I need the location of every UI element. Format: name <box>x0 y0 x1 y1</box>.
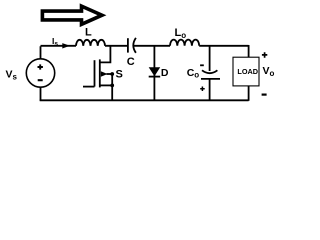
Co minus sign <box>200 64 204 66</box>
wire LOAD bottom to rail <box>248 86 250 101</box>
wire bottom rail <box>40 99 249 101</box>
svg-text:Vs: Vs <box>6 69 18 82</box>
transistor S source lead <box>100 84 112 86</box>
svg-text:Is: Is <box>52 36 58 47</box>
diode D triangle <box>149 67 161 76</box>
voltage source Vs circle <box>26 59 54 87</box>
output minus sign <box>262 93 267 95</box>
wire source connector to bottom rail <box>111 74 113 101</box>
junction dot source-bottom <box>110 84 114 88</box>
capacitor Co straight plate <box>201 78 220 80</box>
wire source bottom to rail <box>40 87 42 101</box>
svg-text:Vo: Vo <box>263 65 275 78</box>
LOAD box <box>233 57 259 86</box>
wire rail L to capacitor C <box>105 45 128 47</box>
svg-text:Lo: Lo <box>175 27 187 40</box>
capacitor C right curved plate <box>133 38 136 53</box>
capacitor Co bottom wire <box>209 79 211 101</box>
capacitor Co top wire <box>209 46 211 71</box>
Vs minus sign <box>38 79 43 81</box>
capacitor Co curved plate <box>202 70 217 73</box>
output plus sign <box>262 52 267 58</box>
current arrow Is head <box>62 43 70 48</box>
capacitor C left plate <box>127 38 129 52</box>
wire rail C to inductor Lo <box>134 45 170 47</box>
transistor S drain lead to top rail <box>100 46 111 63</box>
svg-text:S: S <box>116 69 123 81</box>
diode D branch wire <box>153 46 155 101</box>
transistor S channel bar <box>99 59 101 87</box>
wire rail Lo to right corner <box>199 45 248 57</box>
wire top-left rail from source to inductor L <box>41 46 77 59</box>
svg-text:C: C <box>127 56 135 68</box>
svg-text:LOAD: LOAD <box>237 67 258 76</box>
Co plus sign <box>200 87 205 92</box>
transistor S gate lead <box>83 86 95 88</box>
diode D cathode bar <box>149 76 161 78</box>
svg-text:L: L <box>85 27 92 39</box>
inductor L coil <box>76 40 105 46</box>
svg-text:Co: Co <box>187 67 200 80</box>
inductor Lo coil <box>170 40 199 46</box>
transistor S body arrow <box>101 71 108 76</box>
Vs plus sign <box>38 64 43 69</box>
junction dot body-source <box>110 72 114 76</box>
big block arrow (power flow) <box>42 6 102 24</box>
transistor S gate bar <box>94 60 96 86</box>
svg-text:D: D <box>161 67 169 79</box>
transistor S body lead <box>107 73 113 75</box>
